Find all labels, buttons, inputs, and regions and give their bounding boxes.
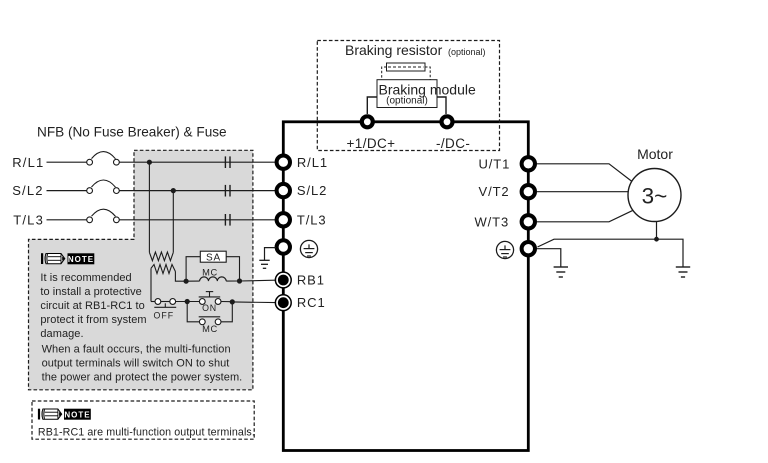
svg-text:to install a protective: to install a protective [40, 286, 141, 298]
svg-text:Braking resistor: Braking resistor [345, 42, 443, 58]
svg-text:damage.: damage. [40, 328, 83, 340]
svg-text:R/L1: R/L1 [297, 155, 328, 170]
svg-text:SA: SA [206, 252, 221, 263]
svg-text:NOTE: NOTE [68, 255, 94, 264]
svg-text:(optional): (optional) [448, 47, 486, 57]
svg-text:+1/DC+: +1/DC+ [347, 136, 396, 151]
svg-text:OFF: OFF [154, 311, 175, 321]
svg-text:MC: MC [202, 268, 218, 278]
svg-text:the power and protect the powe: the power and protect the power system. [42, 371, 243, 383]
svg-text:protect it from system: protect it from system [40, 314, 146, 326]
svg-text:(optional): (optional) [386, 96, 428, 107]
svg-text:RC1: RC1 [297, 295, 326, 310]
svg-text:ON: ON [202, 303, 217, 313]
svg-text:RB1-RC1 are multi-function out: RB1-RC1 are multi-function output termin… [38, 426, 255, 438]
svg-text:RB1: RB1 [297, 273, 325, 288]
svg-text:R/L1: R/L1 [12, 155, 44, 170]
svg-text:3~: 3~ [642, 184, 668, 209]
svg-text:T/L3: T/L3 [297, 212, 327, 227]
svg-text:MC: MC [202, 324, 218, 334]
svg-text:S/L2: S/L2 [297, 183, 327, 198]
svg-text:Motor: Motor [637, 146, 673, 162]
svg-text:V/T2: V/T2 [479, 184, 510, 199]
svg-text:U/T1: U/T1 [479, 156, 511, 171]
svg-text:circuit at RB1-RC1 to: circuit at RB1-RC1 to [40, 300, 144, 312]
svg-text:S/L2: S/L2 [12, 183, 44, 198]
svg-text:NFB (No Fuse Breaker) & Fuse: NFB (No Fuse Breaker) & Fuse [37, 125, 227, 140]
svg-text:NOTE: NOTE [64, 411, 90, 420]
svg-text:output terminals will switch O: output terminals will switch ON to shut [42, 357, 230, 369]
svg-text:T/L3: T/L3 [13, 212, 44, 227]
svg-text:When a fault occurs, the multi: When a fault occurs, the multi-function [42, 343, 231, 355]
svg-text:-/DC-: -/DC- [436, 136, 470, 151]
svg-text:W/T3: W/T3 [475, 214, 510, 229]
svg-text:It is recommended: It is recommended [40, 272, 131, 284]
